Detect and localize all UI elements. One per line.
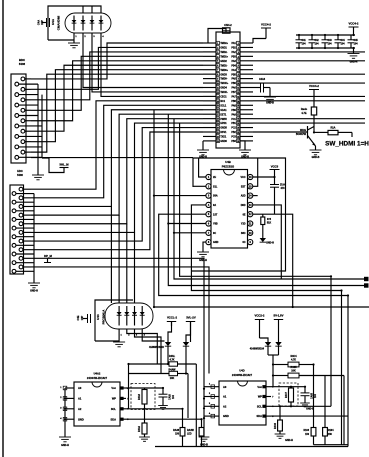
CN4 pin 5 labels <box>220 60 236 63</box>
svg-text:R4A3: R4A3 <box>138 393 141 400</box>
U4D pin 8 <box>262 385 274 389</box>
U4B pin 16 <box>248 174 253 179</box>
label GND-B below C4C <box>266 102 274 105</box>
connector J4B body <box>10 185 24 274</box>
diode in U4C #1 <box>117 306 123 337</box>
svg-text:PB1: PB1 <box>231 123 236 125</box>
label U4A <box>51 16 61 31</box>
svg-text:5V-1.8V: 5V-1.8V <box>274 314 284 318</box>
label J4A top <box>19 58 26 66</box>
resistor R4C3 <box>311 428 316 445</box>
wire R4B1 to diode <box>262 225 264 239</box>
label GND-B below Q4C <box>312 156 320 159</box>
wire riser to SCL2 net <box>180 123 331 406</box>
diode D4 in U4A <box>99 16 104 31</box>
label R4A5 150 <box>173 429 180 436</box>
svg-text:A0: A0 <box>78 386 82 390</box>
diode D4C2 <box>275 342 281 355</box>
capacitor C4A10 <box>159 388 168 406</box>
diode D4A2 <box>183 322 191 374</box>
CN4 pin 19 labels <box>220 123 236 125</box>
wire CN4 row18 to right edge <box>253 118 365 120</box>
CN4 pin 1 labels <box>220 42 236 45</box>
U4A2 pin 7 <box>120 397 129 401</box>
svg-text:PB4: PB4 <box>231 64 236 67</box>
svg-text:10P: 10P <box>81 315 84 320</box>
wire R4C8 to Q4C collector <box>313 115 315 127</box>
page border left <box>2 0 4 457</box>
CN4 pin 14 labels <box>220 101 236 103</box>
svg-text:PC2: PC2 <box>231 128 236 130</box>
svg-text:51K: 51K <box>267 223 272 225</box>
svg-text:GND2: GND2 <box>220 61 227 63</box>
J4A pin 6 <box>15 103 38 107</box>
wire CN4 pin1 right to VCC <box>253 39 266 44</box>
U4B pin 15 <box>248 184 253 189</box>
label GND-H below CN4 right <box>241 155 249 158</box>
wire CN4 row19 to right edge <box>253 122 365 124</box>
J4A pin 16 <box>15 155 42 159</box>
svg-text:PB3: PB3 <box>231 56 236 58</box>
CN4 pin 9 right <box>237 77 253 81</box>
svg-text:17: 17 <box>217 114 219 116</box>
svg-text:TMD0-: TMD0- <box>220 79 227 81</box>
svg-text:20: 20 <box>217 127 219 129</box>
U4D pin labels row 2 <box>223 395 262 399</box>
svg-text:D0D: D0D <box>241 204 246 207</box>
svg-text:473: 473 <box>281 187 286 190</box>
ESD array U4C body oval <box>105 303 153 329</box>
svg-text:5: 5 <box>238 61 239 63</box>
CN4 pin 23 left <box>203 139 219 143</box>
J4B pin 17 <box>19 256 31 260</box>
wire CN4 row21 to Q4C base <box>253 131 308 133</box>
wire J4A pin15 to CN4 row8 <box>31 74 203 152</box>
wire TMDS line down to U4C diode 2 <box>118 215 120 303</box>
capacitor C4B1 <box>296 35 303 48</box>
svg-text:18: 18 <box>237 119 239 121</box>
svg-text:TMD2+: TMD2+ <box>220 43 228 45</box>
svg-text:9: 9 <box>238 79 239 81</box>
VCC3 symbol <box>270 164 280 184</box>
wire U4A pin3 down to CN4 row12 <box>92 33 203 92</box>
svg-text:SCL: SCL <box>111 407 117 411</box>
connector CN4 body <box>216 32 240 148</box>
U4A2 pin labels row 4 <box>78 417 116 421</box>
wire U4B pin1 up to box top <box>199 158 206 177</box>
net name SW_HDMI <box>325 141 369 148</box>
svg-text:GND-H: GND-H <box>61 444 69 447</box>
wire U4B pin5 net down <box>159 214 348 446</box>
wire U4A pin2 down to CN4 row11 <box>83 33 203 88</box>
U4A2 pin labels row 3 <box>78 407 116 411</box>
J4A pin 13 <box>21 140 31 144</box>
svg-text:DET1: DET1 <box>220 114 227 116</box>
wire J4B pin15 to CN4 row21 <box>31 132 203 250</box>
wire J4B pin3 to CN4 row15 <box>31 105 203 198</box>
CN4 pin 5 right <box>237 59 253 63</box>
wire U4A2 SDA right <box>126 418 202 420</box>
dashed option box U4D <box>279 383 298 406</box>
svg-text:4.7K: 4.7K <box>169 359 174 362</box>
ground below CN4 right <box>239 141 251 155</box>
svg-text:13: 13 <box>237 96 239 98</box>
U4B pin 11 <box>248 221 253 226</box>
label C4B3 <box>327 39 332 46</box>
VCC symbol 5V-1.8V <box>274 314 284 343</box>
wire R4A2 net down <box>187 374 189 419</box>
svg-text:7: 7 <box>217 70 218 72</box>
U4B pin labels row 1 <box>213 176 246 179</box>
CN4 pin 18 right <box>237 117 253 121</box>
U4B pin 5 <box>206 212 211 217</box>
svg-text:6: 6 <box>238 65 239 67</box>
wire J4A pin5 to CN4 row3 <box>31 52 203 100</box>
svg-text:24C08W-ZK1327: 24C08W-ZK1327 <box>232 373 253 377</box>
wire TMDS line down to U4C diode 3 <box>126 224 128 303</box>
svg-text:23: 23 <box>217 141 219 143</box>
capacitor C4D on VCC3 <box>270 185 279 215</box>
svg-text:DP_M: DP_M <box>44 254 52 258</box>
label C4B4 <box>340 39 345 46</box>
J4A pin 14 <box>15 145 42 149</box>
svg-text:19: 19 <box>217 123 219 125</box>
wire rail edge down to SCL row <box>128 374 130 409</box>
J4B pin 2 <box>12 192 34 196</box>
svg-text:9: 9 <box>217 79 218 81</box>
U4B pin 3 <box>206 193 211 198</box>
svg-text:PB3: PB3 <box>231 141 236 143</box>
CN4 pin 17 right <box>237 113 253 117</box>
CN4 pin 13 right <box>237 95 253 99</box>
svg-text:U4A2: U4A2 <box>94 372 101 376</box>
CN4 pin 13 left <box>203 95 219 99</box>
wire J4B pin13 to CN4 row20 <box>31 128 203 241</box>
CN4 pin 11 left <box>203 86 219 90</box>
U4B pin 8 <box>206 240 211 245</box>
CN4 pin 5 left <box>203 59 219 63</box>
diode in U4C #4 <box>140 306 146 337</box>
J4B pin 15 <box>19 248 31 252</box>
svg-text:8: 8 <box>238 74 239 76</box>
U4B pin 7 <box>206 230 211 235</box>
svg-text:TMCK-: TMCK- <box>220 92 228 94</box>
CN4 pin 1 right <box>237 41 253 45</box>
label C4D 473 <box>280 184 285 191</box>
connector J4A body <box>11 74 26 163</box>
J4A pin 12 <box>15 135 42 139</box>
label GND-H below CN4 left <box>199 155 207 158</box>
wire CN4 row14 to right edge <box>253 100 365 102</box>
CN4 pin 6 left <box>203 64 219 68</box>
wire U4B pin8 to ground <box>197 242 209 257</box>
ground below J4A <box>32 162 44 180</box>
svg-text:10K: 10K <box>291 370 296 373</box>
svg-text:4: 4 <box>217 55 218 58</box>
svg-text:GND-B: GND-B <box>266 102 274 105</box>
label U4B <box>222 160 234 169</box>
svg-text:22: 22 <box>237 136 239 138</box>
J4B pin 11 <box>19 231 31 235</box>
svg-text:Vcc: Vcc <box>257 385 262 389</box>
svg-text:SCL1: SCL1 <box>220 105 227 107</box>
U4D pin labels row 3 <box>223 404 262 408</box>
label Q4C BC847W <box>296 129 307 136</box>
J4B pin 3 <box>19 196 31 200</box>
svg-text:TMD1-: TMD1- <box>220 65 227 67</box>
svg-text:TMD0+: TMD0+ <box>220 70 228 72</box>
svg-text:PB6: PB6 <box>231 83 236 85</box>
svg-text:VCC4-2: VCC4-2 <box>261 23 271 27</box>
ground below Q4C <box>310 150 322 155</box>
CN4 pin 20 left <box>203 126 219 130</box>
CN4 pin 9 labels <box>220 78 236 81</box>
svg-text:R4A4: R4A4 <box>138 425 141 432</box>
wire bottom join LED resistors <box>314 444 349 446</box>
svg-text:14: 14 <box>217 100 219 103</box>
label 4148WS diodes <box>149 346 164 349</box>
U4B pin 1 <box>206 174 211 179</box>
svg-text:WAG: WAG <box>300 129 306 132</box>
VCC symbol cap bank <box>349 22 359 54</box>
J4A pin 2 <box>15 82 38 86</box>
svg-text:PC3: PC3 <box>231 137 236 139</box>
resistor R1A <box>328 127 352 138</box>
wire J4A pin13 to CN4 row7 <box>31 70 203 142</box>
CN4 pin 14 right <box>237 99 253 103</box>
ground under U4D left rail <box>199 437 210 441</box>
wire J4B odd pins to ground rail <box>33 194 35 284</box>
svg-text:VCCL-2: VCCL-2 <box>167 316 178 320</box>
ground cap bank <box>348 54 360 59</box>
label CN4 <box>224 23 232 27</box>
svg-text:RSV1: RSV1 <box>220 132 227 134</box>
label U4C <box>96 310 106 325</box>
wire Q4C emitter to ground <box>315 146 317 150</box>
ground below J4B <box>28 283 40 288</box>
svg-text:A2D: A2D <box>241 195 246 198</box>
svg-text:LED: LED <box>187 434 192 436</box>
label GND-H under U4B pin8 <box>199 259 207 262</box>
svg-text:PA4: PA4 <box>231 69 236 72</box>
net label 3V3_M tap <box>59 162 69 167</box>
J4A pin 11 <box>21 129 31 133</box>
wire U4B pin7 net down <box>174 119 364 279</box>
wire J4B pin19 to pullup rail <box>31 267 209 374</box>
VCC symbol above R4C8 <box>309 84 319 107</box>
wire TMDS line down to U4C diode 1 <box>110 206 112 303</box>
svg-text:2: 2 <box>217 47 218 49</box>
CN4 pin 10 labels <box>220 83 236 85</box>
resistor R4A6 <box>199 428 204 447</box>
EEPROM U4D body <box>219 381 266 425</box>
J4A pin 8 <box>15 114 38 118</box>
svg-text:TMCK+: TMCK+ <box>220 83 229 85</box>
svg-text:GND-H: GND-H <box>199 259 207 262</box>
capacitor C4A <box>42 18 50 27</box>
svg-text:PA9: PA9 <box>231 113 236 116</box>
U4A2 pin 4 <box>60 417 74 421</box>
U4A2 pin 1 <box>60 386 74 390</box>
svg-text:C4A3: C4A3 <box>259 78 266 81</box>
svg-text:TMD2-: TMD2- <box>220 52 227 54</box>
CN4 pin 3 left <box>203 50 219 54</box>
svg-text:PA6: PA6 <box>231 87 236 90</box>
wire J4B pin7 to CN4 row17 <box>31 114 203 215</box>
svg-text:5406: 5406 <box>19 62 26 66</box>
svg-text:11: 11 <box>237 87 239 89</box>
label GND-H cap bank <box>350 61 358 64</box>
CN4 pin 22 left <box>203 135 219 139</box>
J4B pin 18 <box>12 261 34 265</box>
svg-text:10P: 10P <box>40 20 44 25</box>
U4A2 pin 6 <box>120 407 129 411</box>
label C4B1 <box>301 39 306 46</box>
svg-text:HPD1: HPD1 <box>220 123 227 125</box>
svg-text:R1A: R1A <box>330 127 335 130</box>
U4B pin labels row 4 <box>213 204 246 207</box>
wire U4C pin3 bottom to SDA rail <box>135 329 162 374</box>
U4B pin 10 <box>248 230 253 235</box>
port tick SCL bus <box>364 277 369 281</box>
J4A pin 10 <box>15 124 42 128</box>
resistor R4B1 <box>261 214 272 224</box>
svg-text:U4D: U4D <box>239 369 244 373</box>
label C4A05 <box>310 392 317 399</box>
J4A pin 5 <box>21 98 31 102</box>
svg-text:A1: A1 <box>223 395 227 399</box>
J4A pin 15 <box>21 150 31 154</box>
J4A pin 7 <box>21 108 31 112</box>
svg-text:24C04W-ZK1327: 24C04W-ZK1327 <box>87 376 108 380</box>
U4A2 pin 8 <box>120 386 129 390</box>
U4B pin labels row 2 <box>213 185 246 188</box>
svg-text:8: 8 <box>217 74 218 76</box>
wire CN4 row8 to right edge <box>253 73 365 75</box>
pullup rail SCL <box>129 363 197 365</box>
CN4 pin 3 right <box>237 50 253 54</box>
svg-text:4148WS/D24: 4148WS/D24 <box>250 348 265 351</box>
J4B pin 6 <box>12 209 34 213</box>
wire box around U4B <box>191 158 285 271</box>
U4D pin labels row 1 <box>223 385 263 389</box>
svg-text:21: 21 <box>217 132 219 134</box>
ground below CN4 left <box>197 141 209 155</box>
svg-text:15: 15 <box>237 105 239 107</box>
svg-text:VCC3: VCC3 <box>271 164 279 168</box>
svg-text:CMAHDMI: CMAHDMI <box>57 16 61 31</box>
J4B pin 9 <box>19 222 31 226</box>
transistor Q4C <box>308 126 316 146</box>
U4D pin 4 <box>204 412 219 418</box>
svg-text:GND5: GND5 <box>220 128 227 130</box>
svg-text:TXD1: TXD1 <box>220 137 227 139</box>
J4B pin 10 <box>12 226 34 230</box>
svg-text:Y2D: Y2D <box>241 223 246 226</box>
capacitor C4B5 <box>348 35 355 48</box>
svg-text:VCC4-2: VCC4-2 <box>349 22 359 26</box>
svg-text:13: 13 <box>217 96 219 98</box>
U4B pin labels row 6 <box>213 223 246 226</box>
svg-text:R103: R103 <box>304 430 310 432</box>
wire U4D SCL right <box>271 405 331 407</box>
svg-text:U4C: U4C <box>96 314 100 320</box>
wire J4B pin17 to U4D block <box>31 258 204 437</box>
U4A2 pin 5 <box>120 418 129 422</box>
CN4 pin 2 left <box>203 46 219 50</box>
CN4 pin 16 labels <box>220 109 236 112</box>
CN4 pin 7 labels <box>220 69 236 72</box>
filter U4A body oval <box>65 13 111 33</box>
svg-text:U4A: U4A <box>51 18 55 25</box>
svg-text:GND: GND <box>223 414 229 418</box>
label C4B5 <box>353 39 358 46</box>
svg-text:0A: 0A <box>213 204 216 207</box>
svg-text:CN4-2: CN4-2 <box>224 23 232 27</box>
svg-text:10K: 10K <box>170 377 175 380</box>
J4B pin 5 <box>19 205 31 209</box>
svg-text:A0: A0 <box>223 385 227 389</box>
svg-text:GND-H: GND-H <box>285 439 293 442</box>
wire J4A odd pins rail 2 <box>41 95 43 158</box>
svg-text:HDC: HDC <box>17 169 23 173</box>
wire U4B pin6 net down <box>168 114 364 285</box>
CN4 pin 18 left <box>203 117 219 121</box>
CN4 pin 2 labels <box>220 48 236 50</box>
capacitor C4B4 <box>335 35 342 48</box>
pin numbers U4A <box>75 35 104 38</box>
capacitor C4E <box>83 314 91 323</box>
wire jog to diode D4C1 <box>260 338 269 342</box>
svg-text:10: 10 <box>217 83 219 85</box>
wire U4A2 Vcc to cap <box>126 387 163 389</box>
svg-text:PA3: PA3 <box>231 60 236 63</box>
CN4 pin 17 labels <box>220 113 236 116</box>
svg-text:WP: WP <box>112 397 116 401</box>
CN4 pin 10 right <box>237 81 253 85</box>
U4B pin labels row 5 <box>213 213 246 216</box>
cap bank bottom bus <box>296 47 355 49</box>
U4B pin 13 <box>248 202 253 207</box>
wire box around U4C <box>95 300 133 341</box>
wire J4A pin7 to CN4 row4 <box>31 56 203 110</box>
diode D2 in U4A <box>81 16 86 31</box>
resistor R4A1 <box>169 355 178 366</box>
svg-text:16: 16 <box>217 110 219 112</box>
svg-text:PB2: PB2 <box>231 48 236 50</box>
CN4 pin 12 right <box>237 90 253 94</box>
pin leads U4A top <box>83 6 92 13</box>
svg-text:PC1: PC1 <box>231 119 236 121</box>
svg-text:C4A: C4A <box>37 20 41 25</box>
svg-text:GND6: GND6 <box>220 141 227 143</box>
U4B pin labels row 3 <box>213 195 246 198</box>
label C4A10 <box>169 393 176 400</box>
CN4 pin 15 left <box>203 104 219 108</box>
svg-text:GND-H: GND-H <box>30 290 38 293</box>
svg-text:WP: WP <box>258 395 262 399</box>
label J4A bottom <box>17 169 23 177</box>
svg-text:A2: A2 <box>78 407 82 411</box>
VCC symbol VCC2-2 <box>255 314 265 339</box>
svg-text:SDA1: SDA1 <box>220 109 227 112</box>
J4A pin 9 <box>21 119 31 123</box>
CN4 pin 8 left <box>203 72 219 76</box>
resistor R4C5 <box>273 366 344 378</box>
svg-text:17: 17 <box>237 114 239 116</box>
CN4 pin 7 right <box>237 68 253 72</box>
U4D pin 3 <box>204 403 219 408</box>
